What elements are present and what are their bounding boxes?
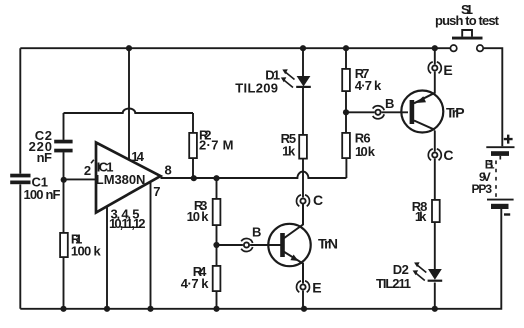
svg-text:10 k: 10 k	[355, 144, 376, 159]
svg-text:TrP: TrP	[446, 105, 465, 121]
svg-text:10,11,12: 10,11,12	[109, 216, 146, 231]
svg-text:100 nF: 100 nF	[24, 187, 61, 202]
svg-text:C: C	[313, 192, 323, 208]
svg-text:8: 8	[165, 163, 172, 178]
svg-text:1 k: 1 k	[415, 209, 427, 224]
svg-text:PP3: PP3	[472, 182, 493, 196]
svg-text:TrN: TrN	[318, 236, 338, 252]
svg-text:2·7 M: 2·7 M	[199, 138, 234, 153]
svg-text:TIL209: TIL209	[235, 80, 278, 95]
svg-text:4·7 k: 4·7 k	[355, 78, 382, 93]
svg-text:100 k: 100 k	[71, 243, 102, 258]
svg-text:D2: D2	[393, 262, 409, 277]
svg-text:nF: nF	[37, 150, 52, 165]
svg-text:B: B	[385, 96, 394, 111]
svg-text:LM380N: LM380N	[96, 172, 146, 187]
svg-text:B: B	[252, 225, 261, 240]
svg-text:14: 14	[131, 149, 145, 164]
svg-text:1 k: 1 k	[282, 144, 296, 159]
svg-text:C: C	[443, 147, 453, 163]
svg-text:4·7 k: 4·7 k	[181, 276, 210, 291]
svg-text:7: 7	[153, 184, 160, 199]
svg-text:TIL211: TIL211	[376, 276, 411, 291]
svg-text:E: E	[443, 62, 452, 78]
svg-text:push to test: push to test	[435, 13, 500, 28]
svg-text:10 k: 10 k	[187, 209, 210, 224]
svg-text:E: E	[312, 280, 321, 296]
svg-text:2: 2	[84, 163, 91, 178]
